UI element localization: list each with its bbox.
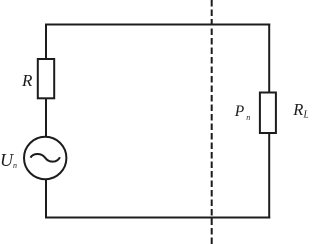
svg-text:n: n	[246, 113, 250, 122]
svg-text:P: P	[234, 103, 245, 120]
svg-text:U: U	[0, 150, 14, 170]
svg-text:R: R	[292, 100, 303, 119]
svg-text:R: R	[21, 71, 33, 90]
svg-text:n: n	[13, 161, 17, 170]
svg-text:L: L	[303, 110, 309, 121]
